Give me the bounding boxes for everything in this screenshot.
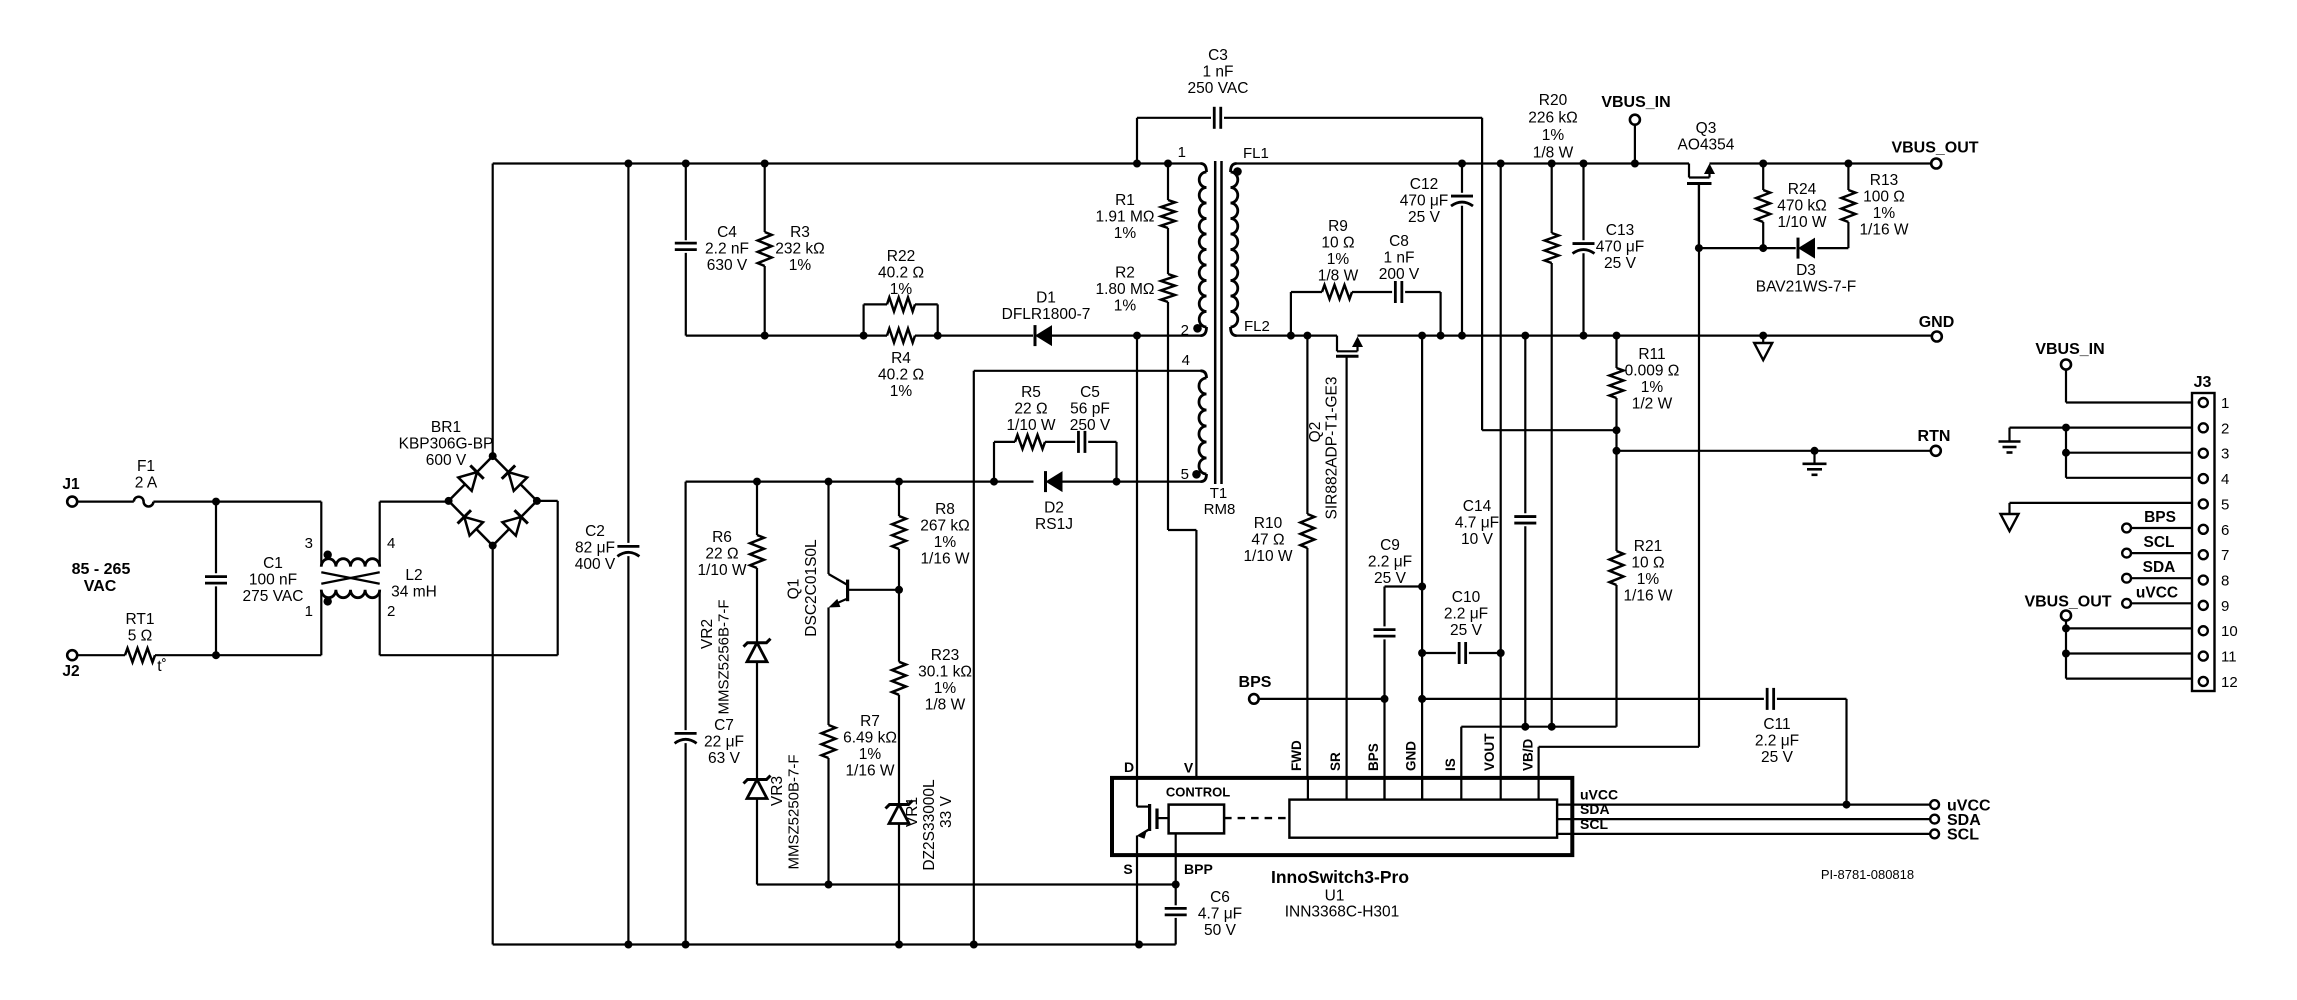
node B junction bbox=[212, 651, 220, 659]
resistor R3 bbox=[764, 164, 766, 233]
inductor L2 winding 1-2 bbox=[320, 590, 322, 655]
junction D2 cathode bbox=[990, 478, 998, 486]
wire SCL bbox=[1557, 833, 1930, 835]
BR1 diode top-right bbox=[502, 465, 527, 490]
svg-text:IS: IS bbox=[1443, 758, 1458, 771]
svg-text:1/8 W: 1/8 W bbox=[925, 697, 966, 714]
svg-text:1/8 W: 1/8 W bbox=[1318, 268, 1359, 285]
svg-text:BPS: BPS bbox=[1366, 743, 1381, 771]
svg-text:11: 11 bbox=[2221, 649, 2237, 666]
junction R24 top bbox=[1759, 160, 1767, 168]
wire L2 pin2 to bridge bbox=[380, 654, 558, 656]
uVCC terminal bbox=[1930, 800, 1939, 809]
svg-text:1/10 W: 1/10 W bbox=[1777, 214, 1826, 231]
svg-text:MMSZ5250B-7-F: MMSZ5250B-7-F bbox=[786, 754, 803, 869]
junction C2 top bbox=[624, 160, 632, 168]
junction C11 uVCC bbox=[1843, 801, 1851, 809]
svg-text:C2: C2 bbox=[585, 523, 605, 540]
svg-text:25 V: 25 V bbox=[1761, 749, 1794, 766]
junction VR1 bottom bbox=[895, 941, 903, 949]
svg-text:Q3: Q3 bbox=[1696, 120, 1717, 137]
svg-text:1%: 1% bbox=[1641, 379, 1664, 396]
svg-text:25 V: 25 V bbox=[1408, 209, 1441, 226]
svg-text:4: 4 bbox=[387, 535, 395, 552]
svg-text:1/10 W: 1/10 W bbox=[1006, 417, 1055, 434]
svg-text:C1: C1 bbox=[263, 555, 283, 572]
svg-text:VR3: VR3 bbox=[769, 776, 786, 806]
junction C12 top bbox=[1458, 160, 1466, 168]
svg-text:SDA: SDA bbox=[2143, 559, 2176, 576]
svg-text:FL1: FL1 bbox=[1243, 145, 1269, 162]
SDA terminal bbox=[1930, 815, 1939, 824]
resistor R4 bbox=[887, 329, 915, 343]
pass FET Q3 bbox=[1688, 164, 1690, 178]
wire pin2 to drain node bbox=[1137, 335, 1201, 337]
resistor R10 bbox=[1306, 336, 1308, 514]
svg-text:1%: 1% bbox=[1114, 298, 1137, 315]
BPS terminal J3 bbox=[2122, 524, 2131, 533]
junction R20 top bbox=[1548, 160, 1556, 168]
wire VBUS_IN to J3 pin1 bbox=[2065, 370, 2067, 403]
svg-text:RS1J: RS1J bbox=[1035, 516, 1073, 533]
svg-text:12: 12 bbox=[2221, 674, 2238, 691]
svg-text:Q1: Q1 bbox=[786, 579, 803, 600]
svg-text:R22: R22 bbox=[887, 248, 915, 265]
svg-text:85 - 265: 85 - 265 bbox=[72, 561, 131, 578]
snubber R5 C5 loop bbox=[993, 442, 995, 482]
U1 secondary pin stubs bbox=[1307, 778, 1309, 800]
svg-text:1/16 W: 1/16 W bbox=[920, 551, 969, 568]
svg-text:MMSZ5256B-7-F: MMSZ5256B-7-F bbox=[716, 599, 733, 714]
svg-text:1: 1 bbox=[305, 603, 313, 620]
svg-text:BPP: BPP bbox=[1184, 861, 1213, 877]
svg-text:10: 10 bbox=[2221, 623, 2238, 640]
svg-text:C6: C6 bbox=[1210, 889, 1230, 906]
wire Q3 gate bbox=[1698, 184, 1700, 249]
junction RTN tap bbox=[1613, 447, 1621, 455]
capacitor C2 bbox=[627, 164, 629, 543]
junction R20 IS line bbox=[1548, 723, 1556, 731]
svg-text:SCL: SCL bbox=[1580, 816, 1608, 832]
svg-text:1%: 1% bbox=[1114, 225, 1137, 242]
BR1 diode bottom-right bbox=[502, 510, 527, 535]
svg-text:4: 4 bbox=[2221, 471, 2229, 488]
junction R24 bottom bbox=[1759, 244, 1767, 252]
svg-text:4.7 μF: 4.7 μF bbox=[1198, 906, 1242, 923]
svg-text:VR2: VR2 bbox=[699, 619, 716, 649]
svg-text:1/10 W: 1/10 W bbox=[697, 562, 746, 579]
svg-text:470 μF: 470 μF bbox=[1596, 239, 1645, 256]
resistor R23 bbox=[898, 590, 900, 662]
junction C14 IS line bbox=[1521, 723, 1529, 731]
svg-text:34 mH: 34 mH bbox=[391, 584, 437, 601]
svg-text:R5: R5 bbox=[1021, 384, 1041, 401]
svg-text:1/16 W: 1/16 W bbox=[1623, 588, 1672, 605]
svg-text:GND: GND bbox=[1919, 314, 1955, 331]
svg-text:63 V: 63 V bbox=[708, 750, 741, 767]
connector J1 bbox=[67, 497, 77, 507]
svg-text:C12: C12 bbox=[1410, 176, 1438, 193]
svg-text:C9: C9 bbox=[1380, 537, 1400, 554]
capacitor C6 bbox=[1175, 885, 1177, 906]
svg-text:3: 3 bbox=[2221, 446, 2229, 463]
U1 CONTROL box bbox=[1169, 805, 1225, 834]
J3 pin circles and numbers bbox=[2199, 398, 2208, 407]
svg-text:22 Ω: 22 Ω bbox=[1014, 401, 1047, 418]
svg-text:5: 5 bbox=[2221, 496, 2229, 513]
capacitor C7 bbox=[684, 482, 686, 730]
svg-text:25 V: 25 V bbox=[1604, 255, 1637, 272]
junction R3 bottom bbox=[761, 332, 769, 340]
svg-text:R10: R10 bbox=[1254, 515, 1283, 532]
wire pin4 return to bottom rail bbox=[973, 371, 975, 945]
resistor R20 bbox=[1551, 164, 1553, 234]
junction C3 left bbox=[1133, 160, 1141, 168]
junction Q3 gate node bbox=[1695, 244, 1703, 252]
wire U1 S pin to rail bbox=[1136, 855, 1138, 944]
bridge rectifier BR1 bbox=[449, 456, 493, 501]
junction D2 anode bbox=[1113, 478, 1121, 486]
junction R1 top bbox=[1164, 160, 1172, 168]
svg-text:VBUS_IN: VBUS_IN bbox=[1601, 94, 1670, 111]
svg-text:1.80 MΩ: 1.80 MΩ bbox=[1096, 281, 1155, 298]
svg-text:1/16 W: 1/16 W bbox=[1859, 222, 1908, 239]
svg-text:T1: T1 bbox=[1210, 485, 1228, 502]
L2 core bbox=[321, 572, 379, 584]
svg-text:INN3368C-H301: INN3368C-H301 bbox=[1285, 904, 1400, 921]
svg-text:SDA: SDA bbox=[1580, 801, 1610, 817]
svg-text:2.2 nF: 2.2 nF bbox=[705, 241, 749, 258]
svg-text:DZ2S33000L: DZ2S33000L bbox=[921, 779, 938, 871]
resistor R8 bbox=[898, 482, 900, 516]
svg-text:R4: R4 bbox=[891, 350, 911, 367]
junction snubber left bbox=[1287, 332, 1295, 340]
transformer T1 core bbox=[1214, 161, 1217, 484]
svg-text:L2: L2 bbox=[405, 567, 422, 584]
wire R11 to RTN bbox=[1615, 430, 1617, 451]
junction C2 bottom bbox=[624, 941, 632, 949]
svg-text:J2: J2 bbox=[62, 663, 79, 680]
svg-text:R8: R8 bbox=[935, 501, 955, 518]
svg-text:V: V bbox=[1184, 760, 1194, 776]
svg-text:GND: GND bbox=[1404, 741, 1419, 771]
wire drain to U1 D pin bbox=[1136, 336, 1138, 778]
svg-text:R23: R23 bbox=[931, 647, 959, 664]
junction bias return bbox=[970, 941, 978, 949]
svg-text:1%: 1% bbox=[1327, 251, 1350, 268]
svg-text:100 Ω: 100 Ω bbox=[1863, 189, 1905, 206]
svg-text:1%: 1% bbox=[934, 534, 957, 551]
svg-text:2.2 μF: 2.2 μF bbox=[1755, 733, 1799, 750]
svg-text:40.2 Ω: 40.2 Ω bbox=[878, 265, 924, 282]
svg-text:10 Ω: 10 Ω bbox=[1631, 555, 1664, 572]
svg-text:BPS: BPS bbox=[1239, 674, 1272, 691]
wire SDA bbox=[1557, 818, 1930, 820]
junction GND spur bbox=[1418, 695, 1426, 703]
svg-text:RT1: RT1 bbox=[125, 611, 154, 628]
svg-text:232 kΩ: 232 kΩ bbox=[775, 241, 825, 258]
svg-text:2.2 μF: 2.2 μF bbox=[1444, 606, 1488, 623]
junction Q1 collector top bbox=[825, 478, 833, 486]
wire GND pin line bbox=[1421, 336, 1423, 800]
wire U1 BPP pin bbox=[1175, 833, 1177, 884]
svg-text:D: D bbox=[1124, 759, 1134, 775]
wire F1 to node A bbox=[153, 501, 321, 503]
junction R7 bottom bbox=[825, 881, 833, 889]
svg-text:VR1: VR1 bbox=[904, 797, 921, 827]
L2 phase dot pin 1 bbox=[324, 597, 332, 605]
svg-text:2: 2 bbox=[2221, 420, 2229, 437]
junction C10 left bbox=[1418, 649, 1426, 657]
svg-text:25 V: 25 V bbox=[1450, 622, 1483, 639]
GND terminal bbox=[1931, 335, 1933, 337]
svg-text:1%: 1% bbox=[859, 746, 882, 763]
junction R11 top bbox=[1613, 332, 1621, 340]
svg-text:SCL: SCL bbox=[2144, 534, 2175, 551]
svg-text:RTN: RTN bbox=[1918, 428, 1951, 445]
svg-text:VBUS_OUT: VBUS_OUT bbox=[1891, 140, 1978, 157]
svg-text:AO4354: AO4354 bbox=[1678, 137, 1735, 154]
wire J1 to F1 bbox=[77, 501, 134, 503]
resistor R6 bbox=[756, 482, 758, 535]
VBUS_IN terminal left bbox=[1630, 115, 1640, 125]
svg-text:R13: R13 bbox=[1870, 172, 1898, 189]
wire GND spur to C11 bbox=[1422, 698, 1764, 700]
capacitor C10 bbox=[1422, 652, 1456, 654]
snubber R9 C8 bbox=[1290, 292, 1292, 336]
svg-text:56 pF: 56 pF bbox=[1070, 401, 1110, 418]
svg-text:1%: 1% bbox=[1637, 571, 1660, 588]
svg-text:C3: C3 bbox=[1208, 47, 1228, 64]
svg-text:VOUT: VOUT bbox=[1482, 733, 1497, 771]
svg-text:4.7 μF: 4.7 μF bbox=[1455, 515, 1499, 532]
svg-text:4: 4 bbox=[1182, 352, 1190, 369]
svg-text:2 A: 2 A bbox=[135, 475, 158, 492]
transformer T1 bias winding bbox=[1201, 371, 1207, 378]
svg-text:R3: R3 bbox=[790, 224, 810, 241]
fuse F1 bbox=[134, 497, 154, 507]
J3 earth ground pins 2-4 bbox=[2010, 427, 2193, 429]
capacitor C1 bbox=[215, 502, 217, 574]
svg-text:1.91 MΩ: 1.91 MΩ bbox=[1096, 209, 1155, 226]
SCL terminal bbox=[1930, 830, 1939, 839]
diode D1 bbox=[1034, 325, 1037, 346]
svg-text:R2: R2 bbox=[1115, 265, 1135, 282]
capacitor C4 bbox=[685, 164, 687, 241]
junction U1 source bbox=[1135, 941, 1143, 949]
wire R2 to V pin bbox=[1167, 302, 1169, 530]
wire FL2 GND rail right of Q2 bbox=[1358, 335, 1932, 337]
svg-text:Q2: Q2 bbox=[1307, 422, 1324, 443]
svg-text:CONTROL: CONTROL bbox=[1166, 785, 1230, 800]
BR1 diode top-left bbox=[458, 465, 483, 490]
svg-text:200 V: 200 V bbox=[1379, 266, 1420, 283]
svg-text:1: 1 bbox=[1178, 144, 1186, 161]
junction R22 right bbox=[934, 332, 942, 340]
svg-text:BR1: BR1 bbox=[431, 419, 461, 436]
svg-text:470 kΩ: 470 kΩ bbox=[1777, 198, 1827, 215]
junction C7 bottom bbox=[682, 941, 690, 949]
junction C13 bottom bbox=[1580, 332, 1588, 340]
svg-text:40.2 Ω: 40.2 Ω bbox=[878, 367, 924, 384]
svg-text:R24: R24 bbox=[1788, 181, 1817, 198]
wire VR3 to BPP line bbox=[757, 883, 829, 885]
resistor R1 bbox=[1167, 164, 1169, 201]
svg-text:PI-8781-080818: PI-8781-080818 bbox=[1821, 867, 1914, 882]
wire gate clamp line bbox=[1699, 247, 1796, 249]
VBUS_IN terminal right bbox=[2061, 360, 2071, 370]
wire C3 to secondary sense node bbox=[1481, 118, 1483, 430]
capacitor C14 bbox=[1524, 336, 1526, 514]
transformer T1 primary winding bbox=[1201, 164, 1207, 173]
wire uVCC bbox=[1557, 803, 1930, 805]
svg-text:R21: R21 bbox=[1634, 538, 1662, 555]
svg-text:D1: D1 bbox=[1036, 290, 1056, 307]
svg-text:1/16 W: 1/16 W bbox=[845, 763, 894, 780]
transistor Q1 bbox=[827, 482, 829, 574]
wire R7 to BPP line bbox=[827, 758, 829, 885]
svg-text:10 Ω: 10 Ω bbox=[1321, 235, 1354, 252]
wire L2 pin4 to bridge bbox=[380, 501, 449, 503]
junction Q1 base R8 R23 bbox=[895, 586, 903, 594]
svg-text:2.2 μF: 2.2 μF bbox=[1368, 554, 1412, 571]
junction C10 right bbox=[1497, 649, 1505, 657]
svg-text:SR: SR bbox=[1328, 752, 1343, 771]
svg-text:275 VAC: 275 VAC bbox=[243, 588, 304, 605]
resistor R21 bbox=[1615, 451, 1617, 551]
wire clamp line bbox=[686, 335, 887, 337]
sync FET Q2 bbox=[1336, 336, 1338, 352]
BR1 diode bottom-left bbox=[458, 510, 483, 535]
svg-text:6: 6 bbox=[2221, 522, 2229, 539]
capacitor C11 bbox=[1766, 688, 1769, 710]
svg-text:InnoSwitch3-Pro: InnoSwitch3-Pro bbox=[1271, 867, 1409, 887]
svg-text:1/10 W: 1/10 W bbox=[1243, 548, 1292, 565]
svg-text:9: 9 bbox=[2221, 598, 2229, 615]
junction C12 bottom bbox=[1458, 332, 1466, 340]
svg-text:C13: C13 bbox=[1606, 222, 1634, 239]
svg-text:1: 1 bbox=[2221, 395, 2229, 412]
wire BPP line bbox=[829, 883, 1176, 885]
wire bias line pin5 bbox=[686, 481, 1034, 483]
BR1 vertex junctions bbox=[489, 452, 497, 460]
U1 outer box bbox=[1112, 778, 1572, 855]
svg-text:SIR882ADP-T1-GE3: SIR882ADP-T1-GE3 bbox=[1324, 377, 1341, 520]
junction R22 left bbox=[860, 332, 868, 340]
connector J2 bbox=[67, 650, 77, 660]
svg-text:2: 2 bbox=[1181, 322, 1189, 339]
junction C13 top bbox=[1580, 160, 1588, 168]
svg-text:1%: 1% bbox=[789, 257, 812, 274]
diode D3 bbox=[1797, 238, 1800, 259]
T1 primary phase dot bbox=[1193, 324, 1202, 333]
wire Q1 base bbox=[848, 589, 899, 591]
svg-text:1%: 1% bbox=[1542, 127, 1565, 144]
junction C4 top bbox=[682, 160, 690, 168]
wire RTN rail bbox=[1617, 450, 1931, 452]
svg-text:D2: D2 bbox=[1044, 500, 1064, 517]
svg-text:5: 5 bbox=[1181, 466, 1189, 483]
wire VOUT line bbox=[1500, 164, 1502, 778]
transformer T1 secondary winding bbox=[1231, 164, 1237, 173]
L2 phase dot pin 3 bbox=[324, 551, 332, 559]
svg-text:50 V: 50 V bbox=[1204, 922, 1237, 939]
resistor R7 bbox=[822, 725, 836, 758]
wire IS filter line bbox=[1461, 726, 1616, 728]
svg-text:33 V: 33 V bbox=[938, 795, 955, 828]
svg-text:R7: R7 bbox=[860, 713, 880, 730]
svg-text:30.1 kΩ: 30.1 kΩ bbox=[918, 664, 972, 681]
wire bottom primary rail bbox=[493, 943, 1176, 945]
svg-text:t˚: t˚ bbox=[157, 658, 166, 675]
wire BPS to U1 bbox=[1259, 698, 1385, 700]
svg-text:C5: C5 bbox=[1080, 384, 1100, 401]
wire VBUS rail after Q3 bbox=[1710, 162, 1932, 164]
BPS terminal bbox=[1249, 694, 1259, 704]
svg-text:VAC: VAC bbox=[84, 578, 117, 595]
svg-text:1/2 W: 1/2 W bbox=[1632, 396, 1673, 413]
svg-text:F1: F1 bbox=[137, 458, 155, 475]
svg-text:1%: 1% bbox=[890, 281, 913, 298]
wire VBUS_IN stub bbox=[1634, 125, 1636, 164]
svg-text:7: 7 bbox=[2221, 547, 2229, 564]
svg-text:BAV21WS-7-F: BAV21WS-7-F bbox=[1756, 279, 1857, 296]
wire BR1 plus to top rail bbox=[492, 164, 494, 457]
svg-text:FL2: FL2 bbox=[1244, 318, 1270, 335]
svg-text:VBUS_IN: VBUS_IN bbox=[2035, 341, 2104, 358]
svg-text:22 Ω: 22 Ω bbox=[705, 546, 738, 563]
svg-text:KBP306G-BP: KBP306G-BP bbox=[399, 436, 494, 453]
svg-text:250 VAC: 250 VAC bbox=[1188, 80, 1249, 97]
svg-text:FWD: FWD bbox=[1289, 740, 1304, 771]
wire J3 pin5 chassis bbox=[2010, 502, 2193, 504]
svg-text:C14: C14 bbox=[1463, 498, 1492, 515]
junction C14 rail bbox=[1521, 332, 1529, 340]
svg-text:D3: D3 bbox=[1796, 262, 1816, 279]
resistor R13 bbox=[1847, 164, 1849, 191]
wire FL1 VBUS rail bbox=[1237, 162, 1690, 164]
thermistor RT1 bbox=[125, 648, 155, 662]
connector J3 body bbox=[2192, 393, 2215, 691]
zener VR2 bbox=[744, 639, 771, 647]
svg-text:C4: C4 bbox=[717, 224, 737, 241]
svg-text:100 nF: 100 nF bbox=[249, 572, 297, 589]
RTN ground symbol bbox=[1811, 447, 1819, 455]
wire FL2 GND rail bbox=[1237, 335, 1338, 337]
svg-text:C11: C11 bbox=[1763, 716, 1790, 733]
svg-text:R1: R1 bbox=[1115, 192, 1135, 209]
wire VB/D to Q3 gate bbox=[1537, 747, 1539, 778]
earth symbol J3 bbox=[2008, 428, 2010, 442]
svg-text:R20: R20 bbox=[1539, 92, 1568, 109]
T1 bias phase dot bbox=[1192, 470, 1201, 479]
resistor R11 bbox=[1615, 336, 1617, 368]
svg-text:DFLR1800-7: DFLR1800-7 bbox=[1002, 306, 1091, 323]
svg-text:250 V: 250 V bbox=[1070, 417, 1111, 434]
svg-text:C8: C8 bbox=[1389, 233, 1409, 250]
junction VBUS_IN bbox=[1631, 160, 1639, 168]
svg-text:1 nF: 1 nF bbox=[1383, 250, 1414, 267]
resistor R2 bbox=[1161, 274, 1175, 302]
svg-text:22 μF: 22 μF bbox=[704, 734, 744, 751]
svg-text:uVCC: uVCC bbox=[2136, 585, 2178, 602]
svg-text:1%: 1% bbox=[1873, 205, 1896, 222]
svg-text:400 V: 400 V bbox=[575, 556, 616, 573]
VBUS_OUT terminal bbox=[1931, 159, 1941, 169]
svg-text:1%: 1% bbox=[934, 680, 957, 697]
svg-text:25 V: 25 V bbox=[1374, 570, 1407, 587]
junction BPP C6 bbox=[1172, 881, 1180, 889]
